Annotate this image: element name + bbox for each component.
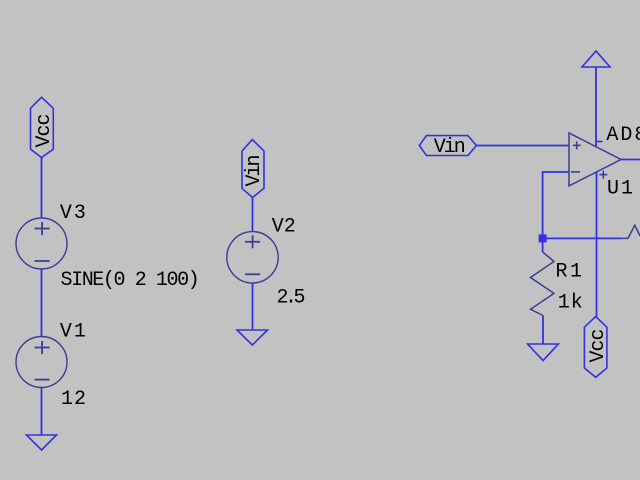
net flag Vin (middle) bbox=[242, 140, 264, 198]
junction node bbox=[539, 234, 547, 242]
wire junction to R2 bbox=[543, 237, 622, 239]
ground (left) bbox=[27, 435, 57, 450]
net flag Vin (right, horizontal) bbox=[419, 136, 476, 156]
resistor R1 bbox=[531, 252, 555, 316]
svg-text:Vcc: Vcc bbox=[33, 114, 56, 147]
wire Vin flag to V2 bbox=[252, 198, 254, 232]
ground (middle) bbox=[237, 330, 268, 345]
power flag (top right, up triangle) bbox=[582, 51, 610, 67]
svg-text:V3: V3 bbox=[60, 202, 88, 225]
V1 minus mark bbox=[35, 379, 50, 381]
V3 plus mark bbox=[35, 222, 50, 235]
resistor R2 (clipped at edge) bbox=[622, 225, 640, 238]
op-amp V+ pin label bbox=[599, 171, 607, 179]
wire junction to R1 bbox=[542, 238, 544, 252]
svg-text:12: 12 bbox=[61, 388, 87, 411]
wire power flag to op-amp V- pin bbox=[595, 67, 597, 146]
svg-text:Vcc: Vcc bbox=[587, 329, 610, 362]
V3 minus mark bbox=[35, 260, 50, 262]
net flag Vcc (bottom right) bbox=[584, 317, 607, 378]
voltage source V1 bbox=[16, 337, 67, 388]
wire Vin flag to op-amp + input bbox=[476, 145, 569, 147]
svg-text:V2: V2 bbox=[272, 216, 296, 239]
svg-text:AD82: AD82 bbox=[606, 124, 640, 147]
net flag Vcc (left) bbox=[31, 97, 54, 157]
svg-text:Vin: Vin bbox=[243, 156, 266, 187]
op-amp U1 bbox=[569, 133, 621, 186]
V2 minus mark bbox=[245, 273, 260, 275]
wire - input to feedback node bbox=[543, 172, 569, 238]
wire V1 to ground bbox=[41, 388, 43, 436]
op-amp - input mark bbox=[571, 171, 580, 173]
wire op-amp output bbox=[621, 159, 640, 161]
wire op-amp V+ pin down to Vcc flag bbox=[596, 172, 598, 317]
svg-text:1k: 1k bbox=[558, 291, 584, 314]
V2 plus mark bbox=[245, 235, 260, 248]
V1 plus mark bbox=[35, 341, 50, 354]
wire V3 to V1 bbox=[41, 269, 43, 337]
voltage source V2 bbox=[227, 232, 278, 283]
svg-text:R1: R1 bbox=[556, 261, 585, 284]
svg-text:V1: V1 bbox=[60, 321, 88, 344]
ground (right) bbox=[528, 344, 559, 361]
svg-text:SINE(0 2 100): SINE(0 2 100) bbox=[61, 269, 199, 292]
svg-text:2.5: 2.5 bbox=[277, 287, 305, 310]
op-amp V- pin label bbox=[597, 141, 603, 143]
wire R1 to ground bbox=[542, 316, 544, 345]
wire V2 to ground bbox=[252, 283, 254, 330]
op-amp + input mark bbox=[573, 142, 581, 150]
voltage source V3 bbox=[16, 218, 67, 269]
svg-text:U1: U1 bbox=[607, 178, 635, 201]
wire Vcc flag to V3 bbox=[41, 158, 43, 219]
svg-text:Vin: Vin bbox=[434, 136, 465, 159]
